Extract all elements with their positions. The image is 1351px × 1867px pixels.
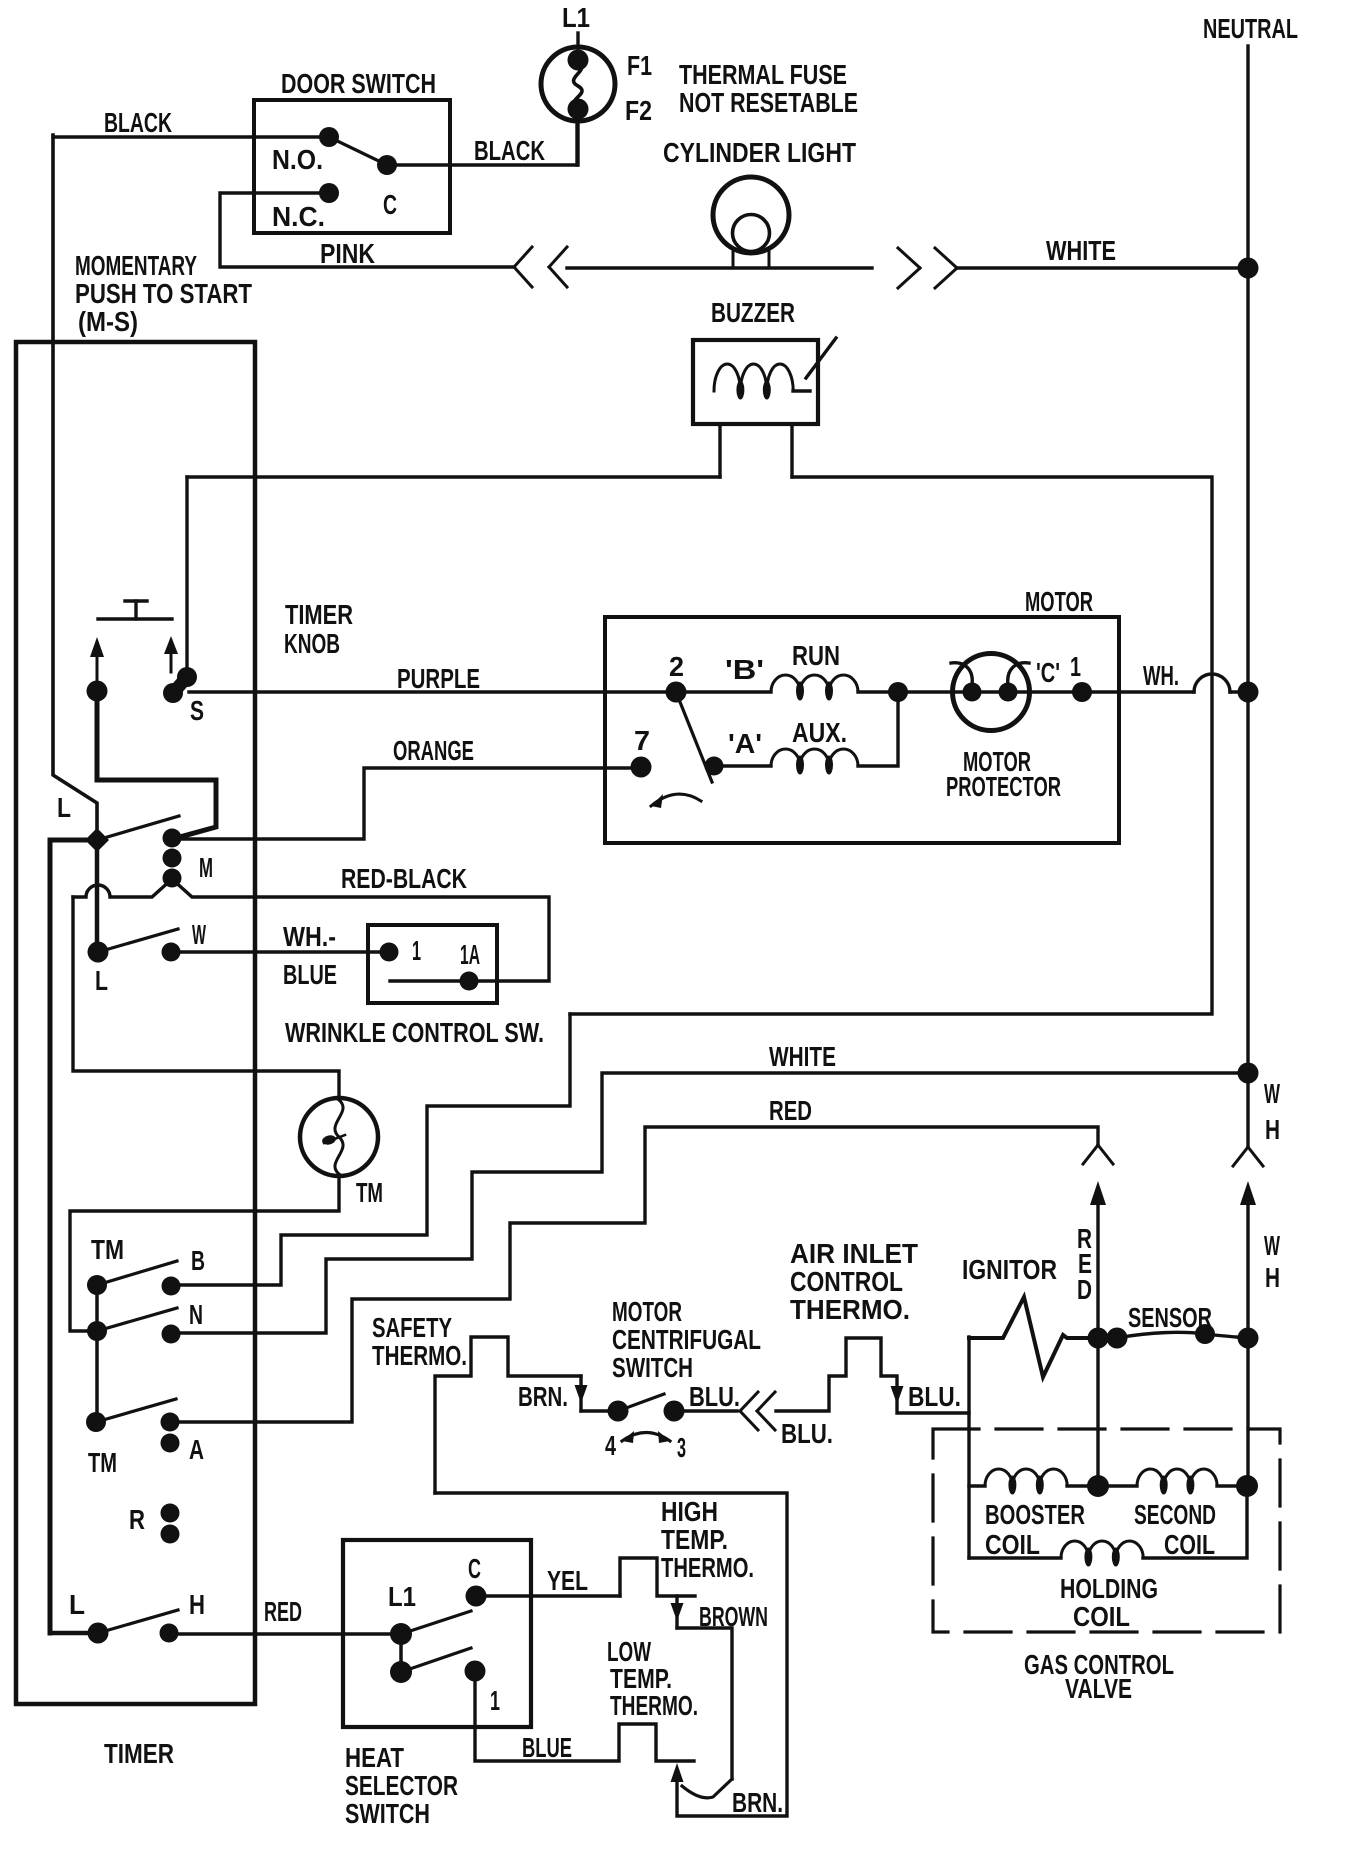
timer contact L-H: L dot — [88, 1623, 109, 1644]
svg-text:RED: RED — [769, 1095, 812, 1126]
door switch DS1 box — [254, 100, 450, 233]
sensor wire — [1117, 1332, 1248, 1338]
wire air inlet control thermo castle — [776, 1338, 969, 1413]
svg-text:SWITCH: SWITCH — [345, 1798, 430, 1829]
svg-text:C: C — [468, 1553, 481, 1584]
wire neutral lower to gas valve — [1246, 1205, 1249, 1486]
svg-text:H: H — [189, 1589, 205, 1620]
svg-text:BRN.: BRN. — [732, 1787, 783, 1818]
timer contact TM dot upper — [87, 1275, 107, 1295]
wire high temp thermo castle — [620, 1558, 695, 1596]
TM lamp circle — [300, 1098, 378, 1176]
svg-text:'A': 'A' — [728, 728, 762, 759]
connector arrow blu down — [891, 1386, 904, 1404]
svg-text:PUSH TO START: PUSH TO START — [75, 278, 252, 309]
wire TM lamp return to N contact — [70, 1175, 339, 1331]
svg-text:SWITCH: SWITCH — [612, 1352, 693, 1383]
motor contact 2 dot — [666, 682, 687, 703]
heat selector blade lower to 1 — [401, 1648, 471, 1672]
wrinkle control internal link — [390, 979, 469, 982]
cylinder light lamp outer circle — [713, 177, 789, 253]
svg-text:HIGH: HIGH — [661, 1496, 718, 1527]
motor protector circle — [953, 654, 1030, 731]
svg-text:CENTRIFUGAL: CENTRIFUGAL — [612, 1324, 761, 1355]
wire orange from M top dot — [172, 768, 632, 839]
wire red lower to gas valve — [1096, 1205, 1099, 1486]
svg-text:THERMO.: THERMO. — [661, 1552, 754, 1583]
aux winding coil — [714, 764, 771, 767]
svg-text:L: L — [57, 792, 71, 823]
svg-text:YEL: YEL — [547, 1565, 588, 1596]
wire to centrifugal switch — [581, 1409, 618, 1412]
svg-text:AIR INLET: AIR INLET — [790, 1238, 918, 1269]
svg-text:1: 1 — [412, 935, 421, 966]
svg-text:L: L — [69, 1589, 85, 1620]
fuse terminal dot F1 — [568, 50, 589, 71]
svg-text:NOT RESETABLE: NOT RESETABLE — [679, 87, 858, 118]
wrinkle control terminal 1 dot — [380, 943, 399, 962]
door switch common dot C — [377, 155, 397, 175]
svg-text:THERMO.: THERMO. — [372, 1340, 467, 1371]
timer switch blade TM to N — [97, 1308, 177, 1331]
holding coil winding on bottom rail — [969, 1556, 1061, 1559]
svg-text:RED: RED — [264, 1596, 302, 1627]
svg-text:W: W — [1264, 1230, 1280, 1261]
motor contact 1 dot — [1072, 682, 1092, 702]
svg-text:(M-S): (M-S) — [78, 306, 138, 337]
connector arrow brown down — [675, 1596, 678, 1628]
svg-text:4: 4 — [605, 1430, 616, 1461]
wire purple from S to motor contact 2 — [189, 690, 676, 693]
connector chevrons white side — [898, 248, 920, 268]
svg-text:L: L — [95, 965, 108, 996]
connector chevron red break — [1083, 1145, 1098, 1164]
svg-text:TIMER: TIMER — [104, 1738, 174, 1769]
motor rotation arc — [651, 794, 701, 806]
timer switch blade L to M — [97, 816, 179, 840]
svg-text:A: A — [189, 1434, 204, 1465]
gas control valve dashed box — [933, 1429, 1280, 1632]
svg-text:THERMAL FUSE: THERMAL FUSE — [679, 59, 847, 90]
svg-text:BLUE: BLUE — [522, 1732, 572, 1763]
svg-text:C: C — [383, 189, 397, 220]
wire timer knob riser — [185, 477, 188, 676]
wire pink from N.C. to connector — [220, 193, 514, 267]
timer contact R dots unused — [161, 1504, 180, 1523]
timer contact TM dot A-row — [86, 1412, 106, 1432]
junction dot motor windings — [888, 682, 908, 702]
timer switch blade TM to A — [96, 1399, 176, 1422]
wire run coil to junction — [858, 690, 1194, 693]
wire brn return to safety loop — [435, 1493, 787, 1816]
wire TM dots link — [95, 1285, 99, 1331]
fuse F1-F2 thermal fuse circle — [541, 47, 615, 121]
timer contact W dot — [162, 943, 181, 962]
cylinder light base leads — [732, 248, 735, 268]
centrifugal switch blade — [618, 1394, 664, 1411]
wire wh-blue branch down to TM lamp — [73, 897, 339, 1099]
timer contact A dots — [161, 1413, 180, 1432]
junction dot ignitor at red — [1088, 1328, 1109, 1349]
ignitor element zigzag — [969, 1297, 1089, 1377]
svg-text:'C': 'C' — [1036, 657, 1060, 688]
heat selector switch box — [343, 1540, 531, 1727]
wire stair from B contact up to top loop — [171, 1014, 570, 1285]
svg-text:CONTROL: CONTROL — [790, 1266, 903, 1297]
svg-text:BLU.: BLU. — [908, 1381, 961, 1412]
svg-text:NEUTRAL: NEUTRAL — [1203, 13, 1298, 44]
heat selector link L1 to lower pole — [399, 1634, 403, 1672]
timer contact N dot — [162, 1325, 181, 1344]
wire black trunk vertical from corner down to jog — [53, 135, 97, 833]
sensor end dot — [1195, 1324, 1215, 1344]
wire buzzer right lead — [790, 424, 793, 477]
motor protector contact dots — [963, 683, 982, 702]
svg-text:DOOR SWITCH: DOOR SWITCH — [281, 68, 436, 99]
buzzer switch blade — [806, 338, 836, 378]
svg-text:N.C.: N.C. — [272, 201, 325, 232]
junction dot sensor at neutral — [1238, 1328, 1259, 1349]
svg-text:1: 1 — [490, 1685, 500, 1716]
wire hump to neutral — [1230, 690, 1248, 693]
heat selector blade L1 to C — [401, 1611, 471, 1634]
connector arrow brn down — [579, 1376, 582, 1411]
wire L node to lower L contact — [95, 848, 100, 944]
fuse element squiggle — [574, 62, 582, 107]
svg-text:W: W — [1264, 1078, 1280, 1109]
wire M-S contact Z-path to M contact — [97, 700, 216, 838]
junction diamond L node — [85, 828, 109, 852]
svg-text:COIL: COIL — [1164, 1529, 1215, 1560]
svg-text:H: H — [1265, 1262, 1280, 1293]
centrifugal switch contact 3 dot — [664, 1401, 685, 1422]
connector arrow red lower — [1090, 1181, 1106, 1205]
cylinder light inner envelope circle — [733, 215, 770, 252]
junction dot motor white at neutral — [1238, 682, 1259, 703]
wire red from H to heat selector L1 — [169, 1632, 401, 1635]
svg-text:BLU.: BLU. — [689, 1381, 740, 1412]
connector arrow neutral lower — [1240, 1181, 1256, 1205]
wire wh-blue from W to wrinkle control 1 — [171, 950, 389, 953]
junction dot second coil at neutral — [1236, 1475, 1258, 1497]
svg-text:BLACK: BLACK — [104, 107, 172, 138]
wire black L1 feed horizontal to door switch N.O. — [53, 135, 329, 138]
svg-text:F1: F1 — [627, 50, 652, 81]
timer switch blade L to H — [98, 1610, 178, 1633]
svg-text:HEAT: HEAT — [345, 1742, 404, 1773]
wire red-black from M bottom dot to wrinkle control 1A — [73, 879, 549, 981]
wire white stair from N contact to neutral — [171, 1073, 1248, 1333]
svg-text:B: B — [191, 1245, 205, 1276]
svg-text:CYLINDER LIGHT: CYLINDER LIGHT — [663, 137, 856, 168]
timer contact M dots — [163, 829, 182, 848]
connector arrow low temp up — [671, 1763, 684, 1782]
svg-text:TM: TM — [356, 1177, 383, 1208]
TM lamp filament — [335, 1100, 343, 1174]
svg-text:N.O.: N.O. — [272, 144, 323, 175]
svg-text:BOOSTER: BOOSTER — [985, 1499, 1085, 1530]
svg-text:THERMO.: THERMO. — [610, 1690, 698, 1721]
wire aux coil up to junction — [858, 692, 898, 766]
heat selector contact L1 dot — [390, 1623, 412, 1645]
svg-text:AUX.: AUX. — [792, 717, 847, 748]
wire loop from timer knob S to buzzer left lead — [187, 475, 720, 478]
timer L trunk heavy wire to bottom — [50, 840, 88, 1633]
junction dot white mid at neutral — [1238, 1063, 1259, 1084]
push-to-start contact dot M-S — [87, 681, 108, 702]
svg-text:WRINKLE CONTROL SW.: WRINKLE CONTROL SW. — [285, 1017, 544, 1048]
svg-text:THERMO.: THERMO. — [790, 1294, 910, 1325]
motor box — [605, 617, 1119, 843]
wire safety thermo castle — [435, 1337, 581, 1493]
svg-text:WHITE: WHITE — [1046, 235, 1116, 266]
svg-text:MOMENTARY: MOMENTARY — [75, 250, 197, 281]
timer knob contact S blob — [173, 677, 187, 693]
wire yel from C to high temp thermo — [476, 1594, 620, 1597]
svg-text:RED-BLACK: RED-BLACK — [341, 863, 467, 894]
svg-text:7: 7 — [634, 725, 650, 756]
door switch blade N.O. to C — [329, 137, 387, 165]
svg-text:BLU.: BLU. — [781, 1418, 833, 1449]
wire blue from 1 through low temp thermo castle — [475, 1671, 694, 1761]
junction dot booster-second — [1087, 1475, 1109, 1497]
timer switch blade L to W — [98, 929, 178, 952]
svg-text:M: M — [199, 852, 213, 883]
svg-text:S: S — [190, 695, 204, 726]
connector chevron neutral break — [1233, 1147, 1248, 1166]
push-to-start arrow right — [164, 636, 178, 654]
sensor start dot — [1107, 1328, 1128, 1349]
svg-text:W: W — [192, 919, 206, 950]
wire black door switch C to thermal fuse — [387, 163, 577, 166]
svg-text:KNOB: KNOB — [284, 628, 340, 659]
svg-text:WH.: WH. — [1143, 660, 1179, 691]
wire trunk into L-H contact — [50, 1631, 98, 1636]
svg-text:TIMER: TIMER — [285, 599, 353, 630]
svg-text:D: D — [1077, 1274, 1092, 1305]
svg-text:PURPLE: PURPLE — [397, 663, 480, 694]
svg-text:1: 1 — [1070, 651, 1081, 682]
push-to-start arrow left — [90, 637, 104, 657]
svg-text:COIL: COIL — [1073, 1601, 1130, 1632]
wire loop buzzer right lead to right riser down to B stair — [570, 477, 1212, 1014]
motor protector contact hooks — [951, 663, 972, 685]
junction dot white-neutral — [1238, 258, 1259, 279]
wire fuse F2 lead down to black wire — [576, 121, 579, 165]
svg-text:WH.-: WH.- — [283, 921, 336, 952]
svg-text:BLACK: BLACK — [474, 135, 545, 166]
connector chevrons blu — [740, 1392, 758, 1411]
svg-text:H: H — [1265, 1114, 1280, 1145]
timer contact W switch: L dot — [88, 942, 109, 963]
wire blu to connector — [674, 1409, 737, 1412]
svg-text:N: N — [189, 1299, 203, 1330]
svg-text:1A: 1A — [460, 939, 480, 970]
svg-text:BLUE: BLUE — [283, 959, 337, 990]
low temp thermo blade — [682, 1779, 732, 1798]
svg-text:'B': 'B' — [725, 654, 764, 685]
heat selector contact C dot — [466, 1586, 487, 1607]
svg-text:2: 2 — [669, 651, 684, 682]
timer contact TM dot lower — [87, 1321, 107, 1341]
wire TM dots link down to A contact — [95, 1331, 99, 1422]
svg-text:PROTECTOR: PROTECTOR — [946, 771, 1061, 802]
motor switch blade 2 to A — [676, 692, 712, 782]
svg-text:SELECTOR: SELECTOR — [345, 1770, 458, 1801]
motor contact A dot — [705, 757, 724, 776]
svg-text:SECOND: SECOND — [1134, 1499, 1216, 1530]
svg-text:BRN.: BRN. — [518, 1381, 568, 1412]
door switch contact N.C. dot — [319, 183, 339, 203]
buzzer coil — [714, 364, 793, 391]
centrifugal switch arc — [622, 1433, 670, 1442]
wrinkle control terminal 1A dot — [460, 972, 479, 991]
run winding coil — [676, 690, 771, 693]
svg-text:SAFETY: SAFETY — [372, 1312, 452, 1343]
ignitor feed vertical — [967, 1337, 970, 1558]
wire brown to low temp thermo blade — [677, 1628, 732, 1779]
wire L1 lead to thermal fuse — [576, 33, 579, 48]
wire white to neutral — [957, 266, 1248, 269]
wire NEUTRAL vertical upper — [1246, 46, 1249, 1145]
svg-text:3: 3 — [677, 1432, 686, 1463]
heat selector lower pole dot — [390, 1661, 412, 1683]
svg-text:L1: L1 — [562, 2, 590, 33]
heat selector contact 1 dot — [465, 1661, 486, 1682]
motor contact 7 dot — [631, 757, 652, 778]
svg-text:MOTOR: MOTOR — [1025, 586, 1093, 617]
svg-text:VALVE: VALVE — [1065, 1673, 1132, 1704]
timer box outline — [16, 342, 255, 1704]
timer contact B dot — [162, 1277, 181, 1296]
svg-text:F2: F2 — [625, 95, 652, 126]
svg-text:PINK: PINK — [320, 238, 375, 269]
wire hump over right riser — [1194, 674, 1230, 692]
centrifugal switch contact 4 dot — [608, 1401, 629, 1422]
svg-text:HOLDING: HOLDING — [1060, 1573, 1158, 1604]
wire red stair from A contact to red feed — [170, 1127, 1098, 1422]
svg-text:TM: TM — [88, 1447, 117, 1478]
svg-text:IGNITOR: IGNITOR — [962, 1254, 1057, 1285]
connector chevrons pink side — [514, 247, 532, 267]
svg-text:MOTOR: MOTOR — [612, 1296, 682, 1327]
second coil winding — [1107, 1484, 1137, 1487]
push-to-start actuator T bar — [98, 617, 172, 620]
svg-text:ORANGE: ORANGE — [393, 735, 474, 766]
door switch contact N.O. dot — [319, 127, 339, 147]
svg-text:TEMP.: TEMP. — [661, 1524, 728, 1555]
timer switch blade TM to B — [97, 1261, 177, 1285]
wire pink/white to cylinder light and connector — [567, 266, 872, 269]
svg-text:COIL: COIL — [985, 1529, 1040, 1560]
svg-text:TM: TM — [91, 1234, 124, 1265]
wrinkle control switch box — [368, 925, 497, 1003]
buzzer box — [693, 340, 818, 424]
svg-text:WHITE: WHITE — [769, 1041, 836, 1072]
wire buzzer left lead — [718, 424, 721, 477]
svg-text:RUN: RUN — [792, 640, 840, 671]
svg-text:L1: L1 — [388, 1581, 416, 1612]
svg-text:R: R — [129, 1504, 145, 1535]
timer contact H dot — [160, 1624, 179, 1643]
booster coil winding — [969, 1484, 985, 1487]
svg-text:BUZZER: BUZZER — [711, 297, 795, 328]
fuse terminal dot F2 — [568, 99, 589, 120]
